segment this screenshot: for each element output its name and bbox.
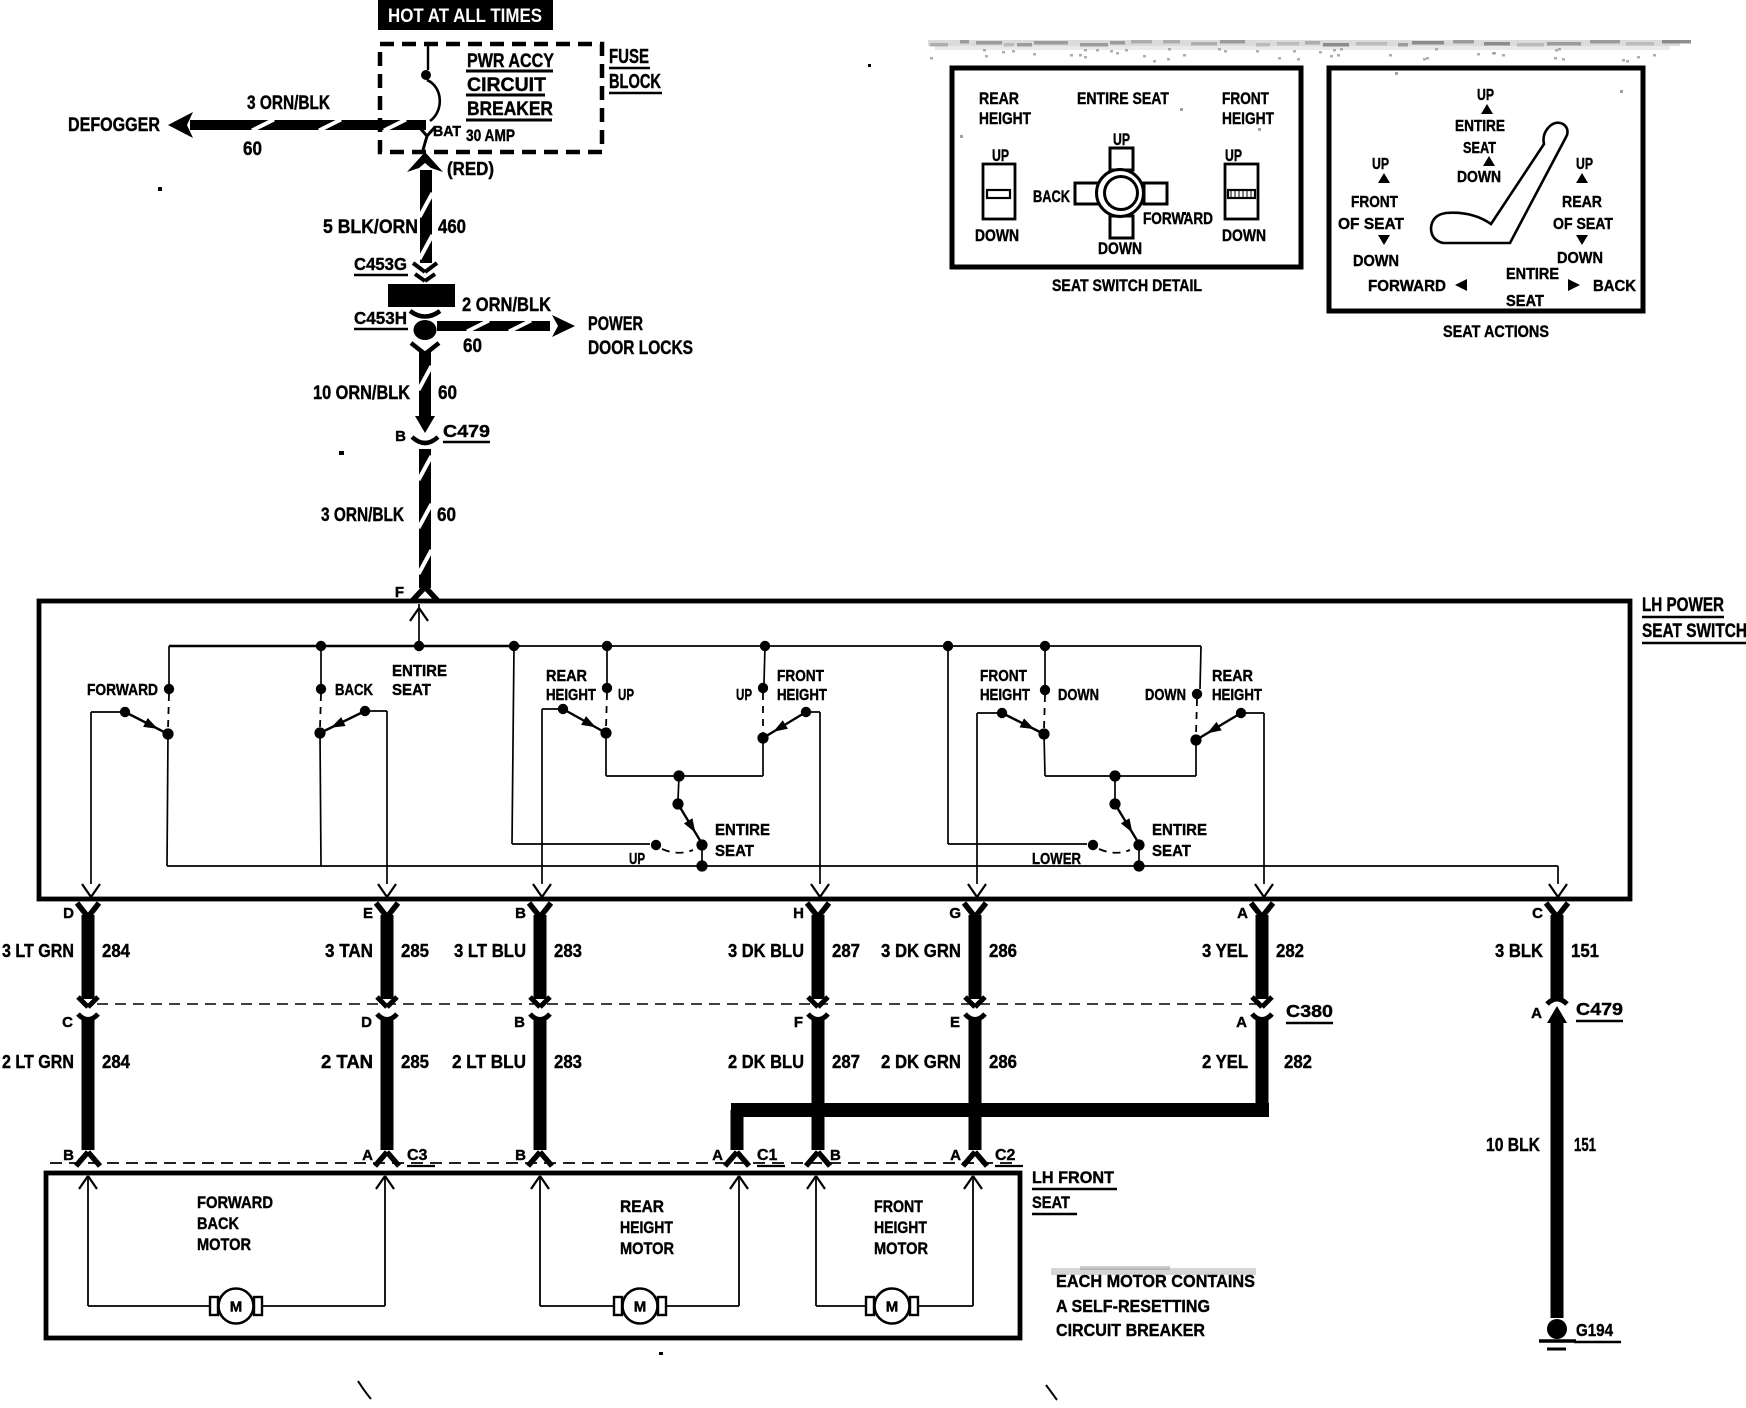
wire 3 TAN 285 (circuit E) [325, 915, 429, 999]
svg-text:FORWARD: FORWARD [1368, 278, 1446, 295]
svg-text:3 TAN: 3 TAN [325, 940, 373, 961]
svg-text:C453H: C453H [354, 308, 407, 328]
front height slider [1222, 147, 1266, 245]
defogger labels [68, 93, 330, 160]
feed wire from F into bus [410, 604, 428, 646]
svg-text:LH POWER: LH POWER [1642, 595, 1724, 616]
svg-text:F: F [794, 1014, 803, 1031]
wire 2 LT GRN 284 (circuit D) [2, 1018, 131, 1150]
svg-text:SEAT SWITCH DETAIL: SEAT SWITCH DETAIL [1052, 277, 1202, 295]
svg-text:FRONT: FRONT [874, 1197, 924, 1216]
switch REAR HEIGHT UP [533, 646, 634, 897]
entire seat joystick [1033, 131, 1213, 258]
svg-text:DOWN: DOWN [1557, 250, 1603, 267]
C380 connector dashed line [97, 1003, 1256, 1005]
svg-text:C2: C2 [995, 1147, 1016, 1164]
svg-text:A: A [1236, 1014, 1247, 1031]
svg-text:F: F [395, 584, 404, 601]
svg-text:G: G [949, 905, 961, 922]
svg-text:C: C [62, 1014, 73, 1031]
svg-text:460: 460 [438, 217, 466, 238]
svg-text:286: 286 [989, 1051, 1017, 1072]
wire to power door locks 2 ORN/BLK 60 [437, 315, 575, 337]
wire 3 LT BLU 283 (circuit B) [454, 915, 582, 999]
svg-text:A: A [1531, 1005, 1542, 1022]
svg-text:283: 283 [554, 1051, 582, 1072]
front height motor M3 [807, 1176, 982, 1324]
connector C380 pin B [514, 997, 550, 1031]
svg-text:HEIGHT: HEIGHT [546, 687, 596, 704]
wire 5 BLK/ORN 460 [323, 170, 466, 263]
svg-text:MOTOR: MOTOR [874, 1239, 928, 1258]
wire 2 DK GRN 286 (circuit G) [881, 1018, 1017, 1150]
svg-text:60: 60 [243, 139, 262, 160]
svg-text:M: M [886, 1299, 899, 1316]
wire to defogger 3 ORN/BLK 60 [168, 112, 426, 138]
svg-text:BAT: BAT [433, 124, 461, 140]
wire 3 LT GRN 284 (circuit D) [2, 915, 131, 999]
svg-text:A SELF-RESETTING: A SELF-RESETTING [1056, 1296, 1210, 1316]
svg-text:5 BLK/ORN: 5 BLK/ORN [323, 217, 418, 238]
wire 2 YEL 282 (circuit A) [1202, 1018, 1312, 1110]
svg-text:60: 60 [438, 383, 457, 404]
lower bus wire to C [167, 866, 1567, 897]
rear height motor M2 [531, 1176, 748, 1324]
connector arrow (RED) [407, 152, 494, 179]
terminal F [395, 584, 438, 601]
svg-text:285: 285 [401, 1051, 429, 1072]
svg-text:REAR: REAR [1562, 194, 1602, 211]
terminal A of seat switch [1237, 903, 1273, 922]
svg-text:CIRCUIT: CIRCUIT [467, 74, 546, 96]
svg-text:60: 60 [463, 336, 482, 357]
svg-text:60: 60 [437, 505, 456, 526]
connector C380 pin C [62, 997, 98, 1031]
svg-text:REAR: REAR [979, 90, 1019, 108]
svg-text:H: H [793, 905, 804, 922]
connector C380 pin A [1236, 997, 1272, 1031]
seat action labels rear of seat [1553, 156, 1613, 267]
svg-text:UP: UP [736, 687, 752, 704]
svg-text:BACK: BACK [335, 682, 373, 699]
LH power seat switch box [39, 601, 1630, 899]
switch BACK [314, 646, 396, 897]
svg-text:B: B [395, 428, 406, 445]
connector body [388, 284, 455, 307]
svg-text:E: E [950, 1014, 960, 1031]
switch FRONT HEIGHT DOWN [968, 646, 1099, 897]
switch ENTIRE SEAT UP [512, 646, 770, 872]
note each motor contains breaker [1051, 1266, 1256, 1340]
svg-text:DOWN: DOWN [1145, 687, 1186, 704]
svg-text:2 LT BLU: 2 LT BLU [452, 1051, 526, 1072]
terminal C of seat switch [1532, 903, 1568, 922]
svg-text:MOTOR: MOTOR [197, 1235, 251, 1254]
svg-text:A: A [712, 1147, 723, 1164]
label LH POWER SEAT SWITCH [1642, 595, 1746, 643]
svg-text:UP: UP [1113, 131, 1130, 149]
svg-text:D: D [361, 1014, 372, 1031]
svg-text:284: 284 [102, 940, 131, 961]
switch FORWARD [82, 646, 174, 897]
svg-text:HEIGHT: HEIGHT [979, 110, 1031, 128]
svg-text:FORWARD: FORWARD [1143, 210, 1213, 228]
svg-text:G194: G194 [1576, 1320, 1613, 1340]
svg-text:C453G: C453G [354, 254, 407, 274]
svg-text:FRONT: FRONT [1351, 194, 1398, 211]
wire 3 DK BLU 287 (circuit H) [728, 915, 860, 999]
svg-text:151: 151 [1574, 1134, 1596, 1155]
rear height slider [975, 147, 1019, 245]
svg-text:282: 282 [1276, 940, 1304, 961]
terminal H of seat switch [793, 903, 829, 922]
scan marks [158, 64, 1186, 1400]
link wire front/rear height down [1045, 770, 1196, 781]
switch FRONT HEIGHT UP [736, 646, 829, 897]
svg-text:286: 286 [989, 940, 1017, 961]
seat profile drawing [1431, 123, 1568, 243]
svg-text:UP: UP [992, 147, 1009, 165]
svg-text:C: C [1532, 905, 1543, 922]
circuit breaker PWR ACCY 30A [466, 50, 554, 145]
connector C380 pin F [794, 997, 828, 1031]
svg-text:2 LT GRN: 2 LT GRN [2, 1051, 74, 1072]
forward back motor M1 [79, 1176, 394, 1324]
svg-text:HEIGHT: HEIGHT [1222, 110, 1274, 128]
motor connector terminal A C1 [712, 1147, 785, 1166]
svg-text:BACK: BACK [1033, 188, 1070, 206]
svg-text:3 YEL: 3 YEL [1202, 940, 1248, 961]
svg-text:287: 287 [832, 1051, 860, 1072]
svg-text:BREAKER: BREAKER [467, 98, 553, 120]
svg-text:10 ORN/BLK: 10 ORN/BLK [313, 383, 410, 404]
svg-text:3 BLK: 3 BLK [1495, 940, 1544, 961]
svg-text:MOTOR: MOTOR [620, 1239, 674, 1258]
wire 10 BLK 151 to ground [1486, 1023, 1596, 1318]
svg-text:3 ORN/BLK: 3 ORN/BLK [247, 93, 330, 114]
wire 3 YEL 282 (circuit A) [1202, 915, 1304, 999]
svg-text:UP: UP [1372, 156, 1389, 173]
svg-text:3 ORN/BLK: 3 ORN/BLK [321, 505, 404, 526]
svg-text:3 DK BLU: 3 DK BLU [728, 940, 804, 961]
wire 2 TAN 285 (circuit E) [321, 1018, 429, 1150]
seat actions box [1329, 68, 1643, 311]
terminal E of seat switch [363, 903, 398, 922]
svg-text:UP: UP [618, 687, 634, 704]
svg-text:DOWN: DOWN [1353, 253, 1399, 270]
svg-text:SEAT ACTIONS: SEAT ACTIONS [1443, 323, 1549, 341]
svg-text:282: 282 [1284, 1051, 1312, 1072]
svg-text:10 BLK: 10 BLK [1486, 1134, 1541, 1155]
svg-text:FORWARD: FORWARD [87, 682, 158, 699]
svg-text:2 DK GRN: 2 DK GRN [881, 1051, 961, 1072]
scan noise band [928, 40, 1691, 138]
svg-text:283: 283 [554, 940, 582, 961]
svg-text:(RED): (RED) [447, 158, 494, 179]
svg-text:OF SEAT: OF SEAT [1553, 216, 1613, 233]
svg-text:B: B [514, 1014, 525, 1031]
fuse block label [609, 46, 662, 93]
connector C479 terminal B [395, 416, 490, 445]
svg-text:FORWARD: FORWARD [197, 1193, 273, 1212]
svg-text:SEAT: SEAT [715, 843, 754, 860]
svg-text:UP: UP [1477, 87, 1494, 104]
svg-text:C1: C1 [757, 1147, 778, 1164]
svg-text:285: 285 [401, 940, 429, 961]
power door locks labels [462, 295, 693, 359]
svg-text:3 LT GRN: 3 LT GRN [2, 940, 74, 961]
svg-text:151: 151 [1571, 940, 1599, 961]
svg-text:DEFOGGER: DEFOGGER [68, 115, 160, 136]
svg-text:B: B [830, 1147, 841, 1164]
svg-text:UP: UP [1576, 156, 1593, 173]
svg-text:HEIGHT: HEIGHT [777, 687, 827, 704]
svg-text:284: 284 [102, 1051, 131, 1072]
svg-text:HOT AT ALL TIMES: HOT AT ALL TIMES [388, 5, 542, 27]
svg-text:FRONT: FRONT [1222, 90, 1269, 108]
svg-text:PWR ACCY: PWR ACCY [467, 50, 554, 72]
svg-text:2 ORN/BLK: 2 ORN/BLK [462, 295, 551, 316]
top bus wire [169, 641, 1201, 651]
terminal B of seat switch [515, 903, 551, 922]
circuit breaker symbol [419, 44, 461, 150]
motor connector terminal B [806, 1147, 841, 1166]
svg-text:HEIGHT: HEIGHT [874, 1218, 927, 1237]
svg-text:B: B [63, 1147, 74, 1164]
svg-text:E: E [363, 905, 373, 922]
svg-text:D: D [63, 905, 74, 922]
svg-text:REAR: REAR [546, 668, 587, 685]
svg-text:LH FRONT: LH FRONT [1032, 1168, 1115, 1187]
svg-text:SEAT: SEAT [392, 682, 431, 699]
terminal D of seat switch [63, 903, 99, 922]
svg-text:FUSE: FUSE [609, 46, 649, 68]
svg-text:SEAT: SEAT [1032, 1193, 1071, 1212]
svg-text:3 LT BLU: 3 LT BLU [454, 940, 526, 961]
seat switch detail box [952, 68, 1301, 267]
switch ENTIRE SEAT LOWER [948, 646, 1207, 872]
svg-text:3 DK GRN: 3 DK GRN [881, 940, 961, 961]
motor connector terminal B [63, 1147, 100, 1166]
seat action labels front of seat [1338, 156, 1404, 270]
svg-text:ENTIRE: ENTIRE [1506, 266, 1559, 283]
LH front seat box [46, 1173, 1020, 1338]
svg-text:DOWN: DOWN [1457, 169, 1501, 186]
svg-text:REAR: REAR [620, 1197, 664, 1216]
connector C380 pin E [950, 997, 985, 1031]
wire 3 DK GRN 286 (circuit G) [881, 915, 1017, 999]
svg-text:BACK: BACK [1593, 278, 1636, 295]
svg-text:SEAT: SEAT [1463, 140, 1496, 157]
seat action labels entire seat up/down [1455, 87, 1505, 186]
motor connector terminal A C3 [362, 1147, 435, 1166]
svg-text:2 TAN: 2 TAN [321, 1051, 373, 1072]
svg-text:DOWN: DOWN [975, 227, 1019, 245]
svg-text:DOWN: DOWN [1098, 240, 1142, 258]
svg-text:DOWN: DOWN [1058, 687, 1099, 704]
wire 3 BLK 151 (circuit C) [1495, 915, 1599, 999]
svg-text:BLOCK: BLOCK [609, 71, 661, 93]
seat action labels forward/back [1368, 266, 1636, 310]
seat switch detail labels [979, 90, 1274, 128]
svg-text:ENTIRE: ENTIRE [392, 663, 447, 680]
svg-text:SEAT: SEAT [1152, 843, 1191, 860]
svg-text:2 DK BLU: 2 DK BLU [728, 1051, 804, 1072]
svg-text:UP: UP [1225, 147, 1242, 165]
wire 2 YEL elbow to C1 [731, 1103, 1270, 1150]
svg-text:C479: C479 [443, 421, 490, 441]
svg-text:EACH MOTOR CONTAINS: EACH MOTOR CONTAINS [1056, 1271, 1255, 1291]
switch REAR HEIGHT DOWN [1145, 646, 1273, 897]
svg-text:SEAT: SEAT [1506, 293, 1544, 310]
svg-text:2 YEL: 2 YEL [1202, 1051, 1248, 1072]
svg-text:HEIGHT: HEIGHT [620, 1218, 673, 1237]
label LH FRONT SEAT [1032, 1168, 1117, 1214]
svg-text:B: B [515, 1147, 526, 1164]
svg-text:ENTIRE: ENTIRE [715, 822, 770, 839]
svg-text:287: 287 [832, 940, 860, 961]
label ENTIRE SEAT (top) [392, 663, 447, 699]
svg-text:SEAT SWITCH: SEAT SWITCH [1642, 621, 1746, 642]
wire 2 LT BLU 283 (circuit B) [452, 1018, 582, 1150]
svg-text:DOWN: DOWN [1222, 227, 1266, 245]
link wire rear/front height up [606, 770, 763, 781]
svg-text:A: A [1237, 905, 1248, 922]
svg-text:BACK: BACK [197, 1214, 240, 1233]
motor connector dashed line [50, 1162, 1012, 1164]
connector C380 label [1286, 1001, 1333, 1023]
svg-text:A: A [950, 1147, 961, 1164]
svg-text:B: B [515, 905, 526, 922]
svg-text:C479: C479 [1576, 999, 1623, 1019]
svg-text:FRONT: FRONT [980, 668, 1027, 685]
connector C453H [354, 308, 440, 354]
svg-text:A: A [362, 1147, 373, 1164]
svg-text:M: M [230, 1299, 243, 1316]
svg-text:OF SEAT: OF SEAT [1338, 216, 1404, 233]
motor connector terminal A C2 [950, 1147, 1023, 1166]
wire 3 ORN/BLK 60 to seat switch [321, 449, 456, 588]
motor connector terminal B [515, 1147, 552, 1166]
svg-text:FRONT: FRONT [777, 668, 824, 685]
terminal G of seat switch [949, 903, 986, 922]
connector C453G [354, 254, 437, 281]
svg-text:C3: C3 [407, 1147, 428, 1164]
svg-text:DOOR LOCKS: DOOR LOCKS [588, 338, 693, 359]
wire 2 DK BLU 287 (circuit H) [728, 1018, 860, 1150]
fuse block dashed box [380, 44, 602, 152]
svg-text:30 AMP: 30 AMP [466, 126, 515, 145]
svg-text:REAR: REAR [1212, 668, 1253, 685]
svg-text:ENTIRE SEAT: ENTIRE SEAT [1077, 90, 1169, 108]
power feed label HOT AT ALL TIMES [378, 0, 553, 30]
wire 10 ORN/BLK 60 [313, 352, 457, 416]
svg-text:CIRCUIT BREAKER: CIRCUIT BREAKER [1056, 1320, 1205, 1340]
ground G194 [1539, 1319, 1621, 1349]
svg-text:ENTIRE: ENTIRE [1455, 118, 1505, 135]
connector C479 pin A [1531, 999, 1623, 1023]
svg-text:HEIGHT: HEIGHT [980, 687, 1030, 704]
svg-text:C380: C380 [1286, 1001, 1333, 1021]
svg-text:ENTIRE: ENTIRE [1152, 822, 1207, 839]
svg-text:HEIGHT: HEIGHT [1212, 687, 1262, 704]
svg-text:M: M [634, 1299, 647, 1316]
connector C380 pin D [361, 997, 397, 1031]
svg-text:POWER: POWER [588, 314, 643, 335]
